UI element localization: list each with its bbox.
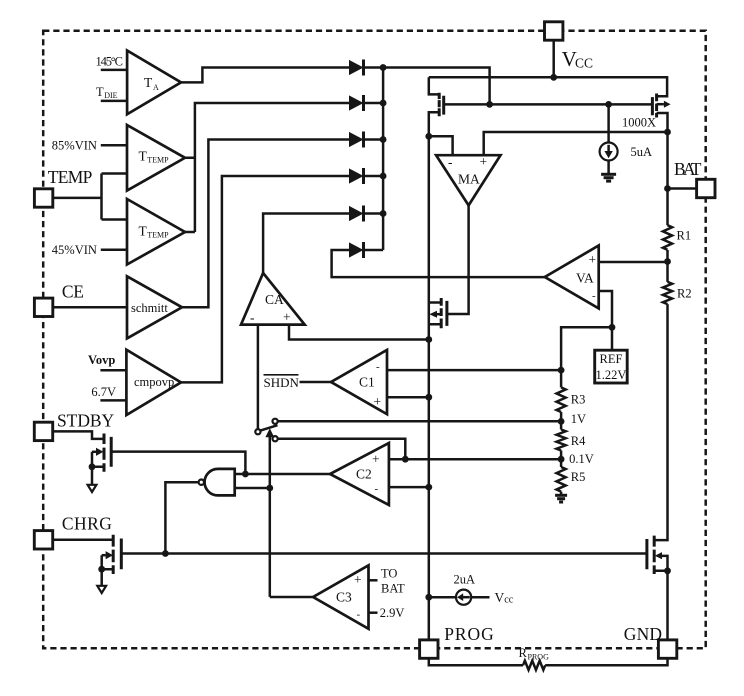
label 1V node xyxy=(571,412,586,426)
comparator C1 xyxy=(331,350,387,414)
svg-text:T: T xyxy=(96,85,104,99)
svg-text:R3: R3 xyxy=(571,392,586,406)
label 2.9V xyxy=(380,606,405,620)
svg-text:R1: R1 xyxy=(677,229,692,243)
op-amp schmitt xyxy=(127,276,182,338)
wire R3 to R4 xyxy=(560,412,563,430)
svg-text:cmpovp: cmpovp xyxy=(134,375,174,389)
diode D4 xyxy=(349,168,383,184)
svg-text:schmitt: schmitt xyxy=(131,301,168,315)
svg-text:STDBY: STDBY xyxy=(57,411,115,431)
current source I1 5uA xyxy=(600,104,652,160)
svg-text:-: - xyxy=(250,310,255,325)
wire CHRG pin to Q5 drain xyxy=(53,539,113,542)
node C2 plus junction xyxy=(402,456,409,463)
svg-text:1V: 1V xyxy=(571,412,586,426)
wire C2 output to NAND input 1 xyxy=(235,473,330,476)
svg-text:1.22V: 1.22V xyxy=(596,368,627,382)
svg-text:+: + xyxy=(283,310,291,325)
transistor Q5 CHRG open-drain FET xyxy=(98,535,121,574)
wire 1V line xyxy=(278,420,561,423)
IC boundary dashed border xyxy=(43,31,706,648)
resistor R4 xyxy=(556,430,586,451)
label 145C input of TA xyxy=(96,55,124,69)
node R3 top junction xyxy=(558,367,565,374)
resistor R5 xyxy=(556,467,585,492)
wire diode bus to gate line xyxy=(383,68,490,105)
svg-text:-: - xyxy=(375,483,379,495)
svg-text:T: T xyxy=(139,223,148,238)
wire TEMP pin to TTEMP inputs trunk xyxy=(53,174,127,220)
diode D6 xyxy=(349,242,383,258)
op-amp TTEMP2 xyxy=(127,199,185,265)
svg-text:PROG: PROG xyxy=(444,624,494,644)
svg-text:R: R xyxy=(519,646,528,660)
pin TEMP xyxy=(34,167,92,207)
resistor RPROG xyxy=(519,646,550,670)
svg-text:+: + xyxy=(372,452,380,467)
svg-text:V: V xyxy=(495,590,505,605)
svg-text:C2: C2 xyxy=(356,467,372,482)
svg-text:1000X: 1000X xyxy=(622,116,656,130)
svg-text:BAT: BAT xyxy=(381,581,405,595)
wire CE pin to schmitt xyxy=(53,306,127,309)
wire cmpovp output to diode D4 xyxy=(181,176,349,382)
switch control arrow xyxy=(265,428,274,597)
svg-text:C3: C3 xyxy=(336,590,352,605)
transistor Q3 sense FET xyxy=(429,298,447,328)
switch S1 throw 0.1V xyxy=(273,436,278,441)
pin CE xyxy=(34,282,84,317)
wire SHDN lead to C1 xyxy=(300,381,332,384)
wire C1 minus input to R3 top node xyxy=(387,369,561,372)
svg-text:cc: cc xyxy=(504,595,513,606)
wire NAND input 2 stub xyxy=(235,487,270,490)
wire TA output to diode D1 xyxy=(181,68,349,83)
label Vovp input xyxy=(88,353,115,367)
svg-text:6.7V: 6.7V xyxy=(91,385,116,399)
node diode bus junctions xyxy=(380,64,387,71)
wire 85%VIN lead xyxy=(101,144,127,147)
node BAT junction xyxy=(664,185,671,192)
node C1 plus junction xyxy=(425,394,432,401)
label 6.7V input xyxy=(91,385,116,399)
wire CA plus input to bus xyxy=(289,325,429,340)
node REF junction xyxy=(609,324,616,331)
wire R1 to R2 xyxy=(666,250,669,282)
svg-text:5uA: 5uA xyxy=(631,145,653,159)
wire C2 minus input to bus xyxy=(389,486,429,489)
wire REF node to R3 top xyxy=(561,327,612,387)
node gate line junction A xyxy=(486,101,493,108)
svg-text:Vovp: Vovp xyxy=(88,353,115,367)
svg-text:TEMP: TEMP xyxy=(147,156,169,165)
transistor Q2 1000X power FET xyxy=(622,94,671,133)
node NAND output junction on gate line xyxy=(162,550,169,557)
diode D5 xyxy=(349,206,383,222)
svg-text:-: - xyxy=(448,155,453,170)
current source I2 2uA xyxy=(429,572,490,604)
wire NAND output to CHRG gate line xyxy=(165,482,198,553)
wire VCC pin to rail xyxy=(552,40,555,77)
label 0.1V node xyxy=(569,452,594,466)
ground under Q5 xyxy=(97,569,106,593)
svg-text:PROG: PROG xyxy=(528,653,550,662)
svg-text:145°C: 145°C xyxy=(96,55,124,69)
pin CHRG xyxy=(34,514,112,550)
transistor Q6 GND-side FET xyxy=(647,536,671,575)
op-amp MA xyxy=(436,154,500,205)
svg-text:SHDN: SHDN xyxy=(264,375,300,390)
svg-text:MA: MA xyxy=(458,171,480,186)
node Q1 source junction xyxy=(425,133,432,140)
svg-text:DIE: DIE xyxy=(104,91,117,100)
svg-text:TO: TO xyxy=(381,567,397,581)
node VCC rail junction xyxy=(550,74,557,81)
svg-text:CA: CA xyxy=(265,292,284,307)
wire MA output to Q3 gate xyxy=(447,205,469,314)
node C2 minus junction xyxy=(425,484,432,491)
ground under Q4 xyxy=(88,467,97,492)
wire CA minus input to switch pole xyxy=(257,325,260,429)
switch S1 throw 1V xyxy=(273,419,278,424)
comparator C3 xyxy=(313,565,368,629)
diode D1 xyxy=(349,60,383,76)
gate U1 NAND xyxy=(199,469,235,496)
wire R4 to R5 xyxy=(560,451,563,468)
wire TA input 1 xyxy=(101,69,127,72)
wire R2 down to Q6 drain xyxy=(654,304,667,540)
wire 6.7V lead xyxy=(100,399,126,402)
svg-text:TEMP: TEMP xyxy=(147,231,169,240)
pin GND xyxy=(624,624,677,658)
svg-text:R5: R5 xyxy=(571,470,586,484)
wire MA plus input xyxy=(484,132,668,155)
node 5uA junction on gate line xyxy=(605,101,612,108)
wire Q2 to BAT to R1 xyxy=(666,132,669,225)
wire C1 plus input to bus xyxy=(387,396,429,399)
svg-text:T: T xyxy=(144,75,153,90)
diode D2 xyxy=(349,95,383,111)
wire Q1 gate line to Q2 gate xyxy=(444,103,653,106)
label SHDN with overline xyxy=(264,375,300,390)
svg-text:R2: R2 xyxy=(677,286,692,300)
wire CA output to diode D5 xyxy=(263,214,349,274)
svg-text:GND: GND xyxy=(624,624,662,644)
svg-text:BAT: BAT xyxy=(674,159,702,179)
svg-text:TEMP: TEMP xyxy=(48,167,93,187)
op-amp TA xyxy=(127,51,181,115)
svg-text:CHRG: CHRG xyxy=(62,514,112,534)
node 2uA junction on bus xyxy=(425,594,432,601)
wire BAT node to pin xyxy=(668,187,697,190)
svg-text:CC: CC xyxy=(575,56,593,71)
svg-text:0.1V: 0.1V xyxy=(569,452,594,466)
svg-text:C1: C1 xyxy=(359,374,375,389)
svg-text:-: - xyxy=(357,609,361,621)
wire VCC rail top xyxy=(429,77,667,96)
resistor R1 xyxy=(663,225,691,250)
wire 0.1V line xyxy=(278,439,561,460)
svg-text:+: + xyxy=(374,394,382,409)
switch S1 pole xyxy=(255,425,277,434)
svg-text:REF: REF xyxy=(600,352,623,366)
wire VA minus input to REF node xyxy=(599,291,612,350)
wire schmitt output to diode D3 xyxy=(182,140,349,308)
svg-text:45%VIN: 45%VIN xyxy=(52,243,97,257)
resistor R2 xyxy=(663,282,692,304)
node R1 R2 junction to VA plus xyxy=(664,258,671,265)
comparator C2 xyxy=(330,443,389,505)
wire Vovp lead xyxy=(100,369,126,372)
wire PROG pin to RPROG xyxy=(429,658,523,665)
op-amp VA xyxy=(545,246,599,309)
op-amp cmpovp xyxy=(126,350,181,415)
svg-text:+: + xyxy=(354,572,362,587)
wire NAND in1 node to Q4 gate xyxy=(111,452,245,474)
wire PROG bus vertical xyxy=(428,136,431,640)
svg-text:2.9V: 2.9V xyxy=(380,606,405,620)
wire MA minus input xyxy=(429,136,453,155)
svg-text:VA: VA xyxy=(576,271,594,286)
wire CHRG gate line to Q6 gate xyxy=(121,552,647,555)
wire RPROG to GND pin xyxy=(545,658,667,665)
ground under 5uA xyxy=(601,161,616,182)
op-amp CA xyxy=(241,273,305,325)
node 1V junction xyxy=(558,418,565,425)
resistor R3 xyxy=(556,387,585,412)
pin PROG xyxy=(420,624,495,658)
label 45%VIN input xyxy=(52,243,97,257)
svg-text:+: + xyxy=(480,154,488,169)
wire Q6 source to GND pin xyxy=(666,571,669,640)
pin BAT xyxy=(674,159,715,198)
wire TTEMP outputs bus to diode D2 xyxy=(185,103,349,232)
svg-text:A: A xyxy=(153,83,159,92)
svg-text:+: + xyxy=(589,252,597,267)
wire diode cathode bus xyxy=(382,68,385,251)
transistor Q4 STDBY open-drain FET xyxy=(89,434,112,472)
wire 45%VIN lead xyxy=(101,248,127,251)
svg-text:CE: CE xyxy=(62,282,84,302)
ground under R5 xyxy=(555,492,567,502)
svg-text:85%VIN: 85%VIN xyxy=(52,139,97,153)
transistor Q1 mirror FET top-left xyxy=(429,77,444,136)
wire TA input 2 xyxy=(101,100,127,103)
label TDIE input of TA xyxy=(96,85,118,100)
svg-text:T: T xyxy=(139,148,148,163)
wire C3 output to switch control xyxy=(270,596,313,599)
node NAND input 2 junction xyxy=(266,485,273,492)
svg-text:-: - xyxy=(592,290,596,302)
wire STDBY pin to Q4 drain xyxy=(53,431,104,439)
wire C3 minus stub xyxy=(369,611,378,614)
node 0.1V junction xyxy=(558,456,565,463)
wire VA plus input to R1 R2 node xyxy=(599,261,668,264)
wire C3 plus stub xyxy=(369,579,378,582)
svg-text:-: - xyxy=(376,361,380,373)
block REF 1.22V xyxy=(595,350,628,383)
node CA plus junction xyxy=(425,336,432,343)
label TO BAT xyxy=(381,567,405,596)
node NAND input 1 junction xyxy=(242,471,249,478)
diode D3 xyxy=(349,132,383,148)
label 85%VIN input xyxy=(52,139,97,153)
node Q2 source junction xyxy=(664,129,671,136)
svg-text:2uA: 2uA xyxy=(454,572,476,586)
pin STDBY xyxy=(34,411,114,441)
wire VA output to diode D6 xyxy=(332,250,545,277)
pin VCC xyxy=(545,22,594,71)
label Vcc net xyxy=(495,590,514,606)
svg-text:R4: R4 xyxy=(571,434,586,448)
op-amp TTEMP1 xyxy=(127,125,185,191)
